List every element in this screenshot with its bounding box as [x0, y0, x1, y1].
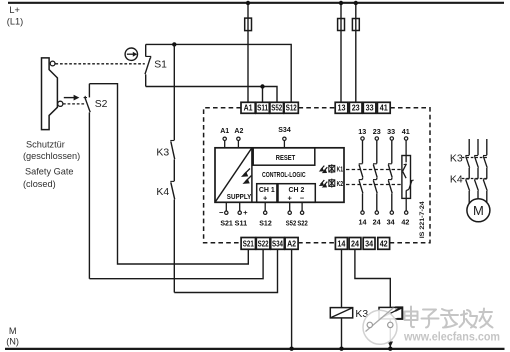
svg-text:24: 24 — [351, 240, 359, 249]
wire S2 top to terminal S21 — [89, 84, 248, 264]
svg-text:S21: S21 — [243, 240, 254, 249]
svg-text:S22: S22 — [258, 240, 269, 249]
contact 41-42 positively driven — [402, 140, 414, 211]
svg-text:33: 33 — [387, 127, 395, 136]
svg-text:13: 13 — [338, 104, 346, 113]
svg-text:S34: S34 — [278, 125, 291, 134]
contactor K4 main contacts — [465, 168, 487, 191]
motor M — [467, 199, 490, 222]
contactor K3 main contacts — [465, 139, 487, 168]
svg-text:S34: S34 — [272, 240, 283, 249]
contact 33-34 — [388, 140, 392, 211]
svg-text:S1: S1 — [154, 59, 167, 70]
svg-text:−: − — [300, 193, 305, 202]
svg-text:+: + — [288, 193, 293, 202]
reset box — [253, 148, 315, 165]
svg-text:A1: A1 — [220, 126, 230, 135]
node junction F1 on rail — [246, 1, 250, 5]
svg-text:K4: K4 — [156, 187, 169, 198]
supply opto arrows — [243, 169, 252, 184]
svg-text:S22: S22 — [297, 218, 308, 227]
svg-text:14: 14 — [337, 240, 345, 249]
terminal A2 — [285, 238, 298, 250]
svg-text:S21: S21 — [220, 218, 233, 227]
pin S12 — [264, 202, 266, 211]
contact K3 aux NC — [170, 141, 174, 182]
svg-text:23: 23 — [373, 127, 381, 136]
terminal 14 — [335, 238, 347, 250]
node junction on S1 top wire — [172, 42, 176, 46]
pin S52 — [289, 202, 291, 211]
wire branch to S11 — [262, 87, 264, 103]
svg-text:K4: K4 — [450, 175, 463, 186]
svg-text:(geschlossen): (geschlossen) — [23, 151, 80, 161]
actuator dashed link door to S1 — [55, 63, 144, 65]
mechanical link K1 contacts dashed — [346, 169, 401, 171]
relay coil K2 with LED arrows — [320, 180, 327, 187]
svg-text:34: 34 — [387, 218, 396, 227]
terminal 24 — [349, 238, 361, 250]
actuator dashed link door to S2 — [63, 103, 84, 105]
wire L+ supply rail — [8, 2, 504, 4]
pin S21 with minus mark — [225, 202, 227, 211]
svg-text:S11: S11 — [235, 218, 248, 227]
wire S2 bottom to terminal S22 — [89, 249, 263, 278]
relay U1 main block — [215, 148, 344, 203]
channel 1 box — [257, 184, 277, 203]
terminal 42 — [378, 238, 390, 250]
pin S11 with plus mark — [239, 202, 241, 211]
pin S22 — [301, 202, 303, 211]
switch S1 — [145, 44, 151, 86]
svg-text:K3: K3 — [156, 147, 169, 158]
svg-text:M: M — [9, 326, 17, 336]
terminal S52 — [270, 102, 284, 113]
fuse F2 — [340, 3, 342, 103]
wire coil K4 to M rail — [389, 319, 391, 349]
contact 13-14 — [359, 140, 363, 211]
svg-text:SUPPLY: SUPPLY — [227, 192, 252, 201]
svg-text:CONTROL-LOGIC: CONTROL-LOGIC — [262, 170, 306, 179]
node junction F3 on rail — [354, 1, 358, 5]
svg-text:A2: A2 — [287, 240, 296, 249]
wire M neutral rail — [5, 348, 505, 350]
svg-text:A1: A1 — [244, 104, 253, 113]
pin A2 — [237, 140, 239, 147]
wire feedback to terminal S34 — [174, 249, 277, 292]
coil K4 bold corner outside logo — [395, 307, 402, 319]
wire S1 bottom to terminals S11 S52 — [146, 87, 277, 103]
watermark logo circle — [363, 308, 397, 345]
actuator symbol circled arrow at S1 — [125, 48, 137, 60]
node junction K4 rail — [388, 347, 392, 351]
mechanical link K2 contacts dashed — [346, 184, 401, 186]
node junction F2 on rail — [339, 1, 343, 5]
terminal 33 — [363, 102, 376, 113]
svg-text:S12: S12 — [259, 218, 272, 227]
svg-text:S11: S11 — [257, 104, 268, 113]
fuse F3 — [355, 3, 357, 103]
relay coil K1 with LED arrows — [320, 166, 327, 173]
svg-text:−: − — [219, 208, 224, 217]
node junction K3 rail — [339, 347, 343, 351]
terminal S12 — [284, 102, 298, 113]
svg-text:Safety Gate: Safety Gate — [25, 166, 74, 176]
svg-text:23: 23 — [352, 104, 360, 113]
svg-text:33: 33 — [366, 104, 374, 113]
relay unit dashed enclosure — [204, 108, 430, 243]
terminal 23 — [349, 102, 362, 113]
svg-text:34: 34 — [365, 240, 373, 249]
switch S2 — [84, 84, 91, 279]
svg-text:S52: S52 — [271, 104, 282, 113]
terminal 41 — [377, 102, 390, 113]
node junction A2 rail — [289, 347, 293, 351]
wire coil K3 to M rail — [341, 318, 343, 349]
svg-text:M: M — [473, 203, 484, 218]
svg-text:(L1): (L1) — [7, 16, 23, 26]
coil K4 — [379, 307, 402, 319]
svg-text:Schutztür: Schutztür — [26, 140, 65, 150]
terminal 34 — [363, 238, 375, 250]
coil K3 — [330, 308, 352, 318]
wire terminal A2 to M rail — [291, 249, 293, 349]
terminal S21 — [241, 238, 255, 250]
svg-text:S12: S12 — [286, 104, 297, 113]
supply diagonal — [215, 148, 252, 203]
svg-text:K1: K1 — [337, 165, 344, 174]
terminal S34 — [271, 238, 285, 250]
watermark hanzi — [405, 307, 493, 328]
svg-text:13: 13 — [358, 127, 366, 136]
wire feedback chain from S1 line — [173, 44, 175, 140]
svg-text:S2: S2 — [95, 99, 108, 110]
svg-text:www.elecfans.com: www.elecfans.com — [403, 330, 500, 344]
svg-text:24: 24 — [373, 218, 382, 227]
pin A1 — [224, 140, 226, 147]
svg-text:K2: K2 — [337, 179, 344, 188]
svg-text:K3: K3 — [450, 153, 463, 164]
fuse F1 — [247, 3, 249, 103]
svg-text:S52: S52 — [286, 218, 297, 227]
pin S34 — [283, 140, 285, 147]
wire phases to motor — [469, 191, 487, 204]
svg-text:IS 221-7-24: IS 221-7-24 — [419, 201, 426, 239]
contact 23-24 — [373, 140, 377, 211]
terminal 13 — [335, 102, 348, 113]
svg-text:+: + — [263, 193, 268, 202]
svg-text:(closed): (closed) — [23, 179, 56, 189]
wire terminal 24 to coil K4 — [355, 249, 390, 307]
node junction at S11 branch — [260, 84, 264, 88]
terminal A1 — [241, 102, 255, 113]
svg-text:42: 42 — [401, 218, 409, 227]
supply section divider — [251, 148, 253, 203]
actuator arrow at S2 — [64, 97, 74, 99]
terminal S22 — [256, 238, 270, 250]
svg-text:42: 42 — [380, 240, 388, 249]
svg-text:(N): (N) — [6, 337, 19, 347]
wire S1 top to terminal S12 — [146, 44, 292, 102]
svg-text:+: + — [243, 208, 248, 217]
svg-text:A2: A2 — [234, 126, 243, 135]
contact K4 aux NC — [170, 181, 174, 292]
svg-text:41: 41 — [402, 127, 411, 136]
svg-text:14: 14 — [359, 218, 368, 227]
svg-text:41: 41 — [380, 104, 388, 113]
wire terminal 14 to coil K3 — [341, 249, 343, 307]
svg-text:RESET: RESET — [276, 153, 296, 162]
svg-text:L+: L+ — [9, 5, 19, 15]
terminal S11 — [256, 102, 269, 113]
channel 2 box — [278, 184, 315, 203]
safety gate door symbol — [42, 58, 63, 130]
